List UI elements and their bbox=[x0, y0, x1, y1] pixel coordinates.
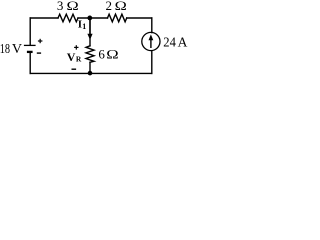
svg-text:A: A bbox=[178, 35, 188, 50]
label VR plus sign bbox=[74, 45, 78, 49]
node junction top bbox=[87, 16, 92, 21]
resistor R1 3ohm zigzag bbox=[58, 14, 78, 22]
battery plus sign bbox=[38, 39, 43, 43]
current arrow I1 on middle branch bbox=[87, 20, 92, 40]
wire middle vertical lower bbox=[89, 62, 91, 73]
svg-text:R: R bbox=[76, 54, 82, 63]
current source U1 circle bbox=[142, 32, 160, 50]
svg-text:Ω: Ω bbox=[115, 0, 127, 13]
current source arrow inside circle bbox=[149, 34, 154, 48]
svg-text:6: 6 bbox=[98, 47, 105, 62]
wire top-left segment bbox=[30, 17, 58, 19]
battery V1 18V long plate bbox=[24, 44, 36, 46]
svg-text:V: V bbox=[67, 50, 76, 64]
wire left vertical upper bbox=[29, 18, 31, 45]
wire right vertical upper bbox=[151, 18, 153, 33]
svg-text:1: 1 bbox=[82, 22, 86, 31]
wire top-middle segment bbox=[78, 17, 108, 19]
svg-text:18: 18 bbox=[0, 42, 10, 57]
wire left vertical lower bbox=[29, 53, 31, 74]
resistor R2 2ohm zigzag bbox=[108, 14, 127, 22]
wire top-right segment bbox=[127, 17, 152, 19]
svg-text:2: 2 bbox=[106, 0, 113, 13]
svg-text:3: 3 bbox=[57, 0, 64, 13]
svg-text:Ω: Ω bbox=[106, 47, 118, 62]
battery V1 18V short plate bbox=[27, 51, 33, 53]
svg-text:24: 24 bbox=[163, 35, 176, 50]
svg-text:V: V bbox=[12, 42, 22, 57]
node junction bottom bbox=[88, 71, 93, 76]
svg-text:Ω: Ω bbox=[67, 0, 79, 13]
label VR minus sign bbox=[72, 68, 77, 70]
wire bottom segment bbox=[30, 72, 152, 74]
wire middle vertical upper bbox=[89, 18, 91, 46]
battery minus sign bbox=[37, 52, 41, 54]
wire right vertical lower bbox=[151, 51, 153, 74]
resistor R3 6ohm vertical zigzag bbox=[86, 46, 94, 63]
